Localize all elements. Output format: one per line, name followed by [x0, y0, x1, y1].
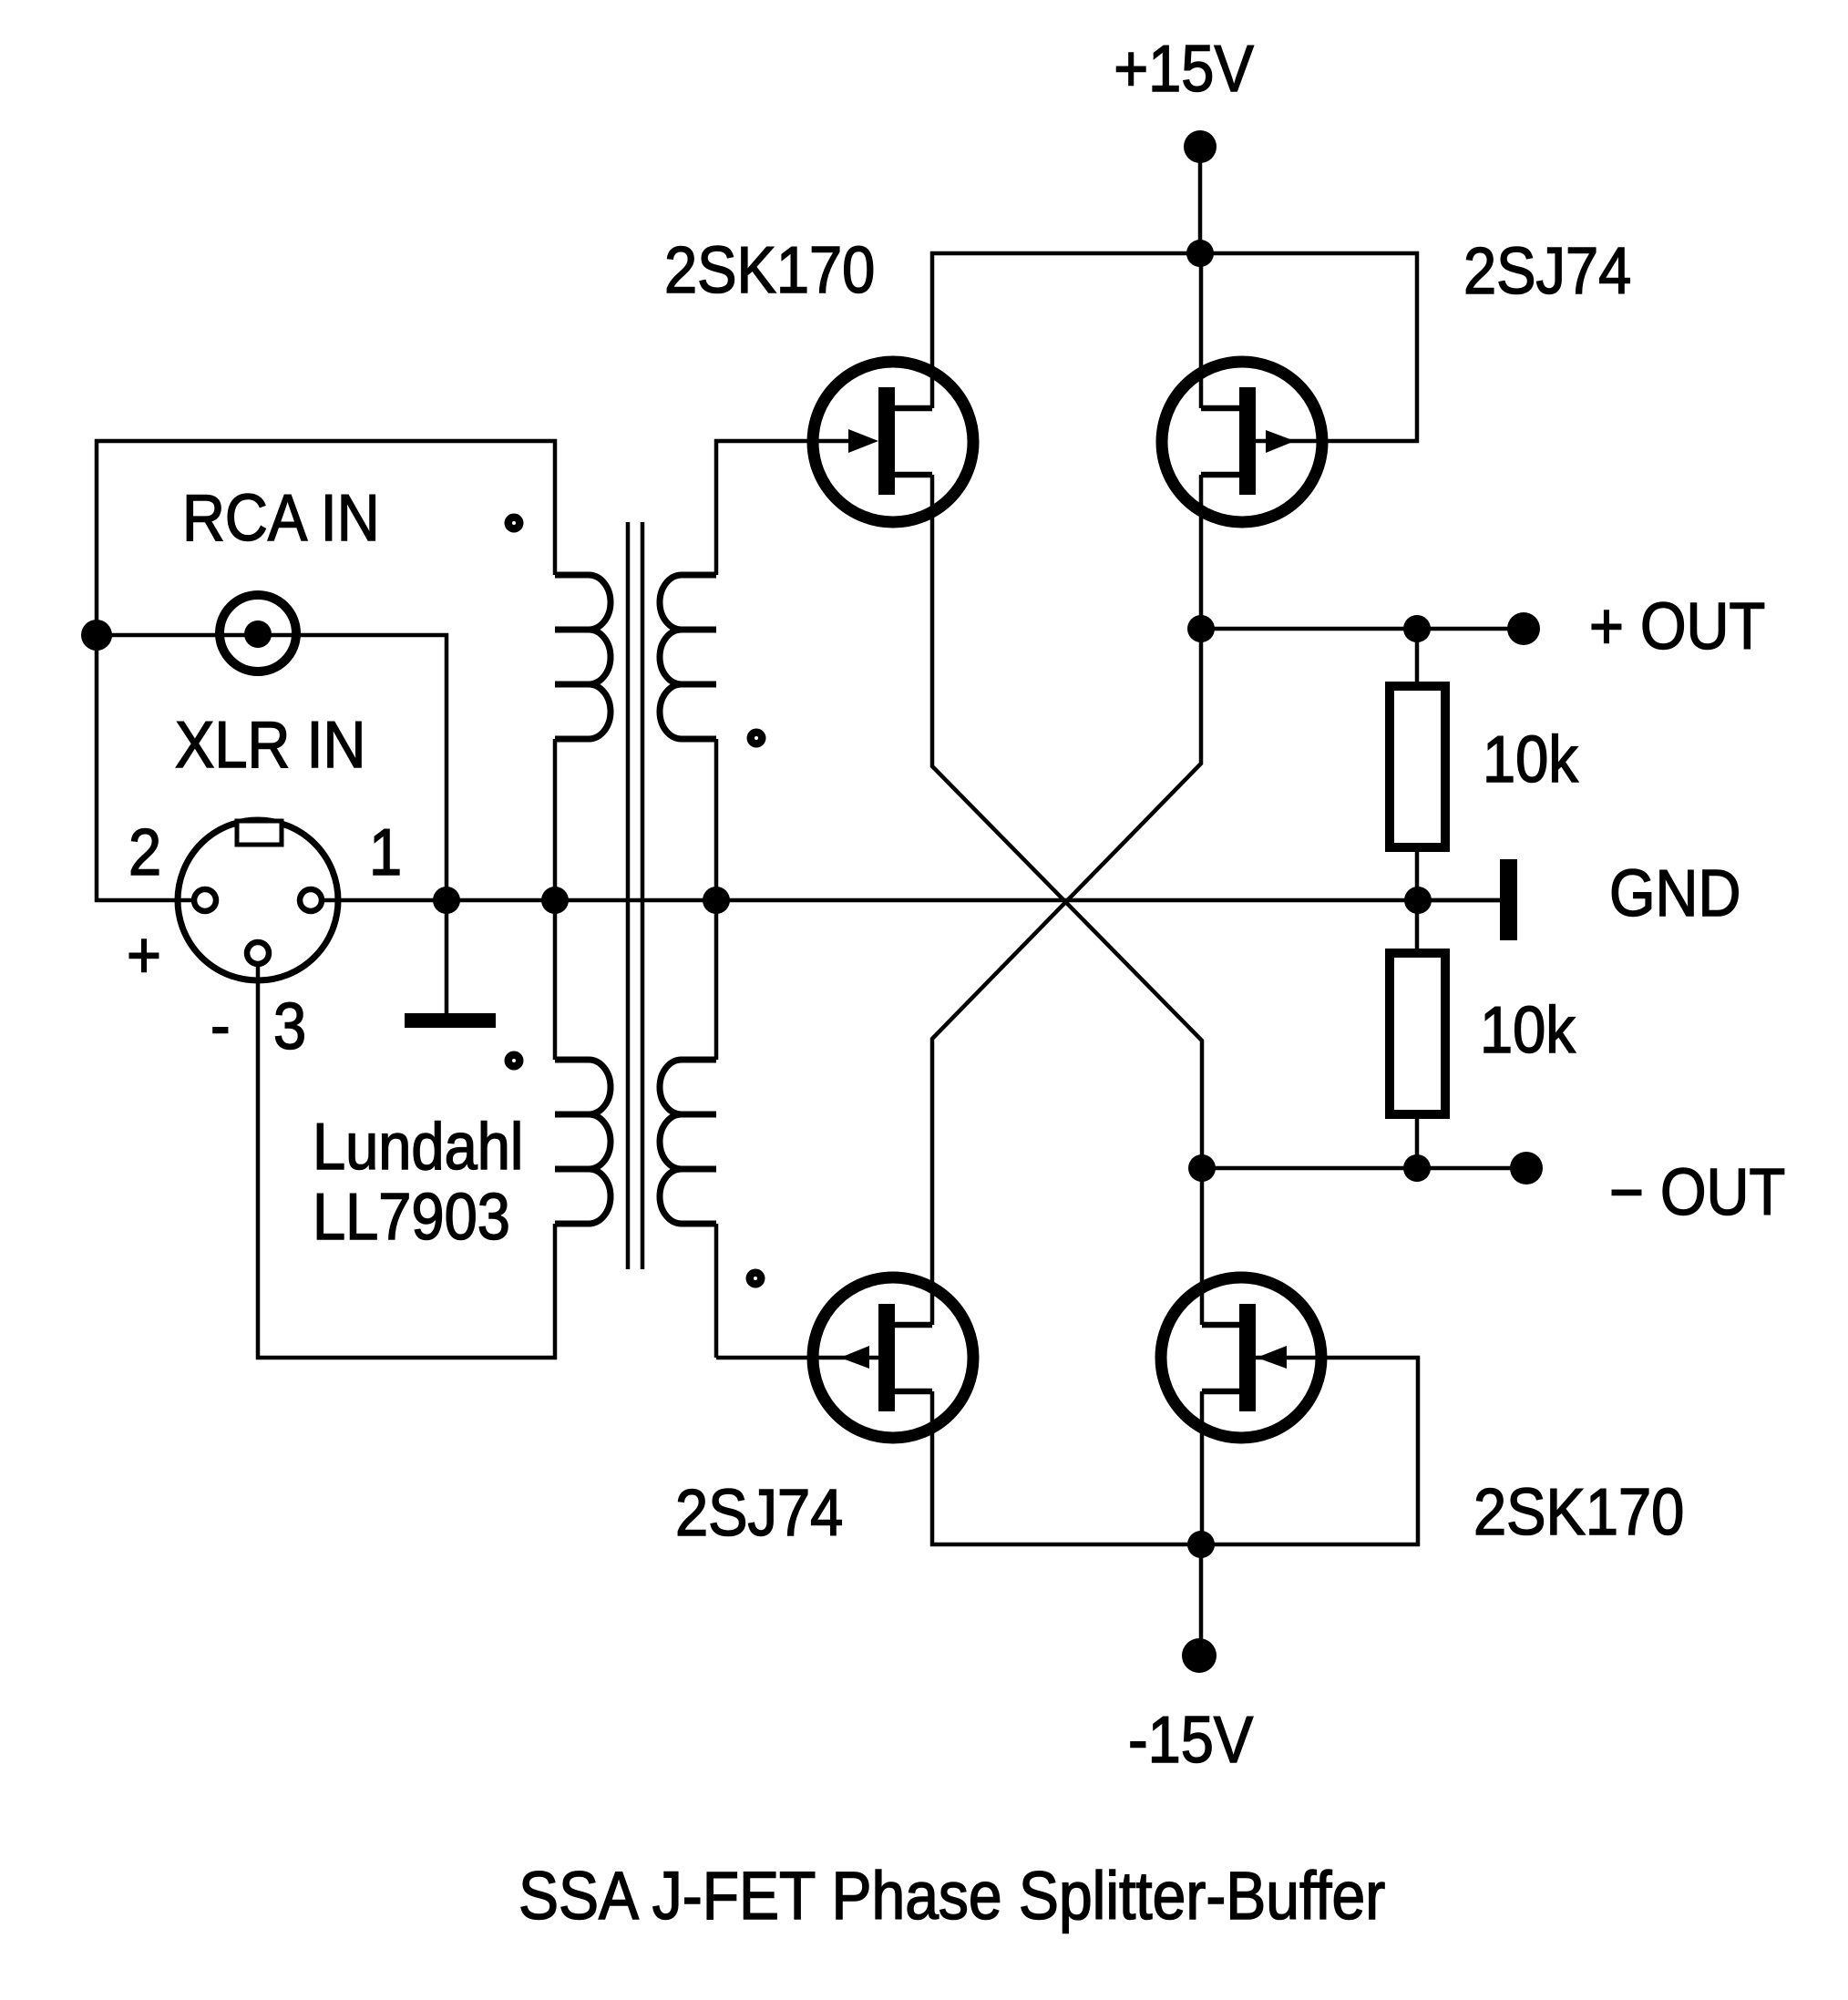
- svg-text:1: 1: [369, 815, 402, 889]
- label -15V: [1128, 1703, 1253, 1777]
- svg-text:2SJ74: 2SJ74: [1463, 234, 1631, 308]
- chassis ground bar: [405, 1013, 496, 1028]
- label GND: [1609, 856, 1740, 930]
- +15V terminal dot: [1184, 130, 1217, 163]
- svg-text:3: 3: [273, 990, 306, 1063]
- wire secondary top leg and Q1 gate: [716, 441, 857, 575]
- junction -OUT left: [1188, 1154, 1216, 1182]
- svg-text:RCA IN: RCA IN: [182, 481, 380, 555]
- svg-text:+15V: +15V: [1114, 32, 1254, 106]
- wire secondary middle leg: [714, 739, 719, 1060]
- connector XLR socket: [178, 820, 338, 980]
- label +15V: [1114, 32, 1254, 106]
- label 2SK170 top-left: [664, 233, 875, 307]
- svg-text:LL7903: LL7903: [313, 1180, 510, 1254]
- svg-text:2SK170: 2SK170: [1473, 1475, 1684, 1549]
- wire input loop: pin2 stub, left vertical, top corner, primary top leg: [97, 441, 555, 900]
- winding secondary bottom: [660, 1060, 716, 1224]
- label 2SK170 bottom-right: [1473, 1475, 1684, 1549]
- junction top rail: [1186, 240, 1214, 267]
- wire primary middle leg: [553, 739, 558, 1060]
- wire top rail with Q1 drain drop and Q2 gate loop: [932, 253, 1417, 441]
- svg-text:Lundahl: Lundahl: [313, 1110, 523, 1184]
- wire Q4 source vertical: [1200, 1391, 1205, 1544]
- wire secondary bottom leg to Q3 gate: [714, 1224, 719, 1358]
- svg-text:10k: 10k: [1483, 723, 1578, 796]
- junction secondary centertap: [703, 887, 730, 914]
- title SSA J-FET Phase Splitter-Buffer: [518, 1859, 1385, 1933]
- svg-text:-15V: -15V: [1128, 1703, 1253, 1777]
- label 2SJ74 top-right: [1463, 234, 1631, 308]
- wire -15V feed: [1199, 1544, 1204, 1655]
- junction GND node: [1404, 887, 1432, 914]
- connector RCA jack: [220, 595, 296, 672]
- polarity dot secondary top: [747, 729, 766, 748]
- polarity dot primary bottom: [505, 1051, 524, 1071]
- svg-text:+ OUT: + OUT: [1589, 590, 1765, 663]
- svg-text:SSA J-FET Phase Splitter-Buffe: SSA J-FET Phase Splitter-Buffer: [518, 1859, 1385, 1933]
- label 2SJ74 bottom-left: [675, 1476, 843, 1550]
- wire +OUT row: [1201, 627, 1524, 631]
- junction bottom rail: [1187, 1531, 1215, 1558]
- svg-text:2SJ74: 2SJ74: [675, 1476, 843, 1550]
- wire Q1 source to -OUT vertical via diagonal: [932, 475, 1202, 1325]
- wire GND stub: [1418, 898, 1500, 903]
- wire resistor R1 top lead: [1415, 629, 1420, 686]
- label RCA IN: [182, 481, 380, 555]
- transistor Q2 2SJ74 top-right: [1162, 362, 1322, 522]
- label - OUT: [1609, 1155, 1785, 1229]
- wire resistor R2 bottom lead: [1415, 1114, 1420, 1168]
- label LL7903: [313, 1180, 510, 1254]
- resistor R1 10k: [1390, 686, 1445, 847]
- junction +OUT left: [1187, 615, 1215, 642]
- svg-text:2SK170: 2SK170: [664, 233, 875, 307]
- wire Q3 source to bottom rail, rail, and Q4 gate loop: [932, 1358, 1418, 1544]
- transistor Q3 2SJ74 bottom-left: [716, 1277, 973, 1438]
- label + OUT: [1589, 590, 1765, 663]
- wire main GND horizontal: [322, 898, 1500, 903]
- wire RCA row to chassis ground: [97, 635, 447, 1013]
- label pin 2: [128, 815, 161, 889]
- polarity dot primary top: [505, 514, 524, 533]
- ground bar GND: [1500, 859, 1517, 940]
- label Lundahl: [313, 1110, 523, 1184]
- junction +OUT resistor: [1403, 615, 1431, 642]
- transistor Q1 2SK170 top-left: [813, 362, 973, 522]
- winding secondary top: [660, 575, 716, 739]
- transistor Q4 2SK170 bottom-right: [1161, 1277, 1321, 1438]
- terminal +OUT: [1507, 612, 1540, 645]
- junction chassis gnd: [433, 887, 460, 914]
- label 10k R1: [1483, 723, 1578, 796]
- terminal -15V: [1182, 1638, 1217, 1673]
- core line right: [641, 522, 645, 1269]
- wire XLR pin3 loop to primary bottom leg: [258, 966, 555, 1358]
- core line left: [626, 522, 631, 1269]
- svg-text:10k: 10k: [1480, 993, 1576, 1067]
- label 10k R2: [1480, 993, 1576, 1067]
- label XLR IN: [175, 708, 365, 782]
- winding primary top: [555, 575, 611, 739]
- polarity dot secondary bottom: [746, 1269, 765, 1288]
- svg-text:− OUT: − OUT: [1609, 1155, 1785, 1229]
- winding primary bottom: [555, 1060, 611, 1224]
- terminal RCA shield: [81, 620, 112, 651]
- svg-text:2: 2: [128, 815, 161, 889]
- svg-text:-: -: [210, 989, 231, 1062]
- svg-text:+: +: [127, 918, 161, 992]
- wire Q2 source vertical: [1199, 253, 1204, 408]
- wire -OUT row: [1202, 1166, 1526, 1171]
- wire resistor R1 bottom lead: [1415, 847, 1420, 953]
- svg-text:XLR IN: XLR IN: [175, 708, 365, 782]
- wire Q2 drain to Q3 drain via diagonal: [932, 475, 1201, 1325]
- svg-text:GND: GND: [1609, 856, 1740, 930]
- junction primary centertap: [541, 887, 569, 914]
- label pin 3: [273, 990, 306, 1063]
- label minus: [210, 989, 231, 1062]
- label plus: [127, 918, 161, 992]
- terminal -OUT: [1510, 1152, 1543, 1185]
- junction -OUT resistor: [1403, 1154, 1431, 1182]
- resistor R2 10k: [1390, 953, 1445, 1114]
- wire +15V feed: [1198, 147, 1203, 253]
- label pin 1: [369, 815, 402, 889]
